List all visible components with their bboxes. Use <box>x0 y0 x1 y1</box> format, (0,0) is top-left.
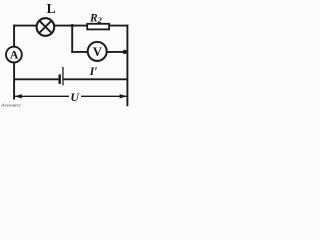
svg-text:R2: R2 <box>89 13 103 25</box>
voltage dimension line U right segment with arrowhead <box>81 94 127 98</box>
wire voltmeter to right vertical <box>107 51 127 53</box>
voltmeter V <box>88 42 107 61</box>
battery short plate <box>59 74 61 84</box>
node junction on top wire <box>71 24 74 27</box>
wire resistor to top-right corner <box>110 25 129 27</box>
svg-text:I′: I′ <box>89 64 98 78</box>
wire branch corner to voltmeter <box>71 51 87 53</box>
wire voltmeter branch vertical <box>71 26 73 53</box>
wire top-left segment <box>13 25 36 27</box>
wire left vertical lower <box>13 63 15 100</box>
wire right vertical <box>126 25 128 107</box>
svg-text:d-resource: d-resource <box>2 103 21 108</box>
wire battery to bottom right <box>63 78 127 80</box>
resistor R2 <box>87 24 109 30</box>
svg-text:U: U <box>70 90 80 104</box>
wire left vertical upper <box>13 25 15 47</box>
voltage dimension line U left segment with arrowhead <box>15 94 69 98</box>
svg-text:V: V <box>93 45 102 59</box>
node junction voltmeter to right vertical <box>123 50 127 54</box>
wire lamp to resistor <box>54 25 87 27</box>
wire bottom left to battery <box>14 78 59 80</box>
ammeter A <box>6 47 22 63</box>
lamp L symbol <box>37 18 55 36</box>
svg-text:A: A <box>10 48 19 62</box>
battery long plate <box>62 67 63 86</box>
svg-text:L: L <box>47 1 56 16</box>
